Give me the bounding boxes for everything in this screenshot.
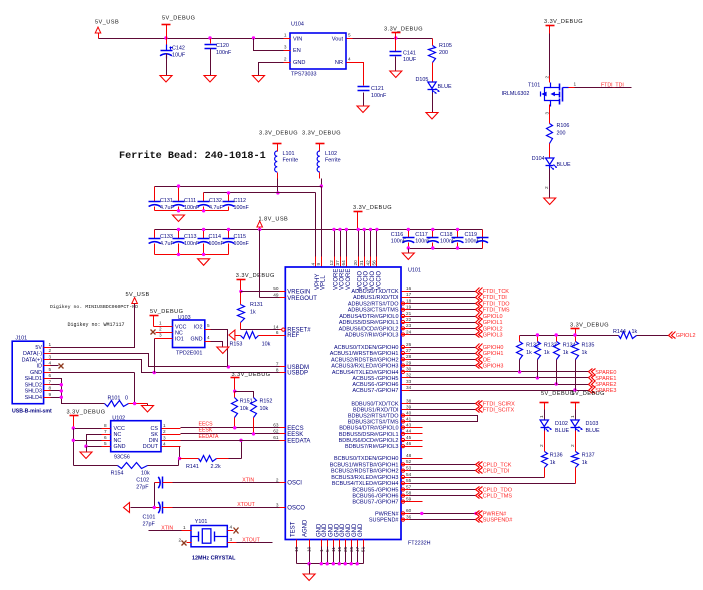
svg-text:GPIOL2: GPIOL2 xyxy=(483,326,503,332)
ground cap row1 xyxy=(173,215,185,222)
svg-text:EESK: EESK xyxy=(199,427,213,433)
svg-text:U101: U101 xyxy=(408,268,421,274)
svg-text:R106: R106 xyxy=(557,123,570,129)
power flag 5V_DEBUG D103 xyxy=(571,391,605,410)
wire U102 NC7 GND xyxy=(87,435,102,447)
wire 1.8V rail xyxy=(155,229,483,231)
port CPLD_TDO xyxy=(476,487,513,494)
svg-text:4.7uF: 4.7uF xyxy=(209,205,223,211)
wire BDBUS2 BDBUS3 loop xyxy=(402,416,478,422)
wire pin 21 to port xyxy=(402,316,476,318)
svg-text:ADBUS2/RTS#/TDO: ADBUS2/RTS#/TDO xyxy=(348,302,399,308)
svg-text:2: 2 xyxy=(544,76,549,79)
op-amp U104 regulator TPS73033 xyxy=(290,22,346,78)
junction gnd bus xyxy=(356,562,359,565)
junction VCORE 37 xyxy=(338,228,341,231)
wire 3.3V to T101 xyxy=(549,34,551,83)
junction 1.8V arrow xyxy=(258,228,261,231)
svg-text:1: 1 xyxy=(570,415,575,418)
svg-text:2: 2 xyxy=(159,327,162,332)
port GPIOL3 xyxy=(476,332,503,339)
wire SHLD chain xyxy=(51,379,105,404)
junction spare SPARE3 xyxy=(573,388,576,391)
svg-text:5: 5 xyxy=(49,367,52,372)
svg-text:BLUE: BLUE xyxy=(555,428,569,434)
junction VCORE 64 xyxy=(345,228,348,231)
svg-text:ACBUS1/WRSTB#/GPIOH1: ACBUS1/WRSTB#/GPIOH1 xyxy=(330,351,399,357)
wire L102 drop xyxy=(320,173,322,187)
svg-text:1k: 1k xyxy=(632,329,638,335)
svg-text:7: 7 xyxy=(49,379,52,384)
LED D104 BLUE xyxy=(532,156,571,170)
capacitor C142 xyxy=(160,39,186,59)
svg-text:29: 29 xyxy=(406,360,412,365)
pin name VCORE xyxy=(339,269,345,290)
junction SHLD3 xyxy=(51,389,64,392)
pin 5 GND xyxy=(30,367,51,376)
pin 2 D102 xyxy=(539,444,544,447)
svg-text:1k: 1k xyxy=(582,460,588,466)
wire stub pin 48 xyxy=(402,458,423,460)
wire pin 38 to port xyxy=(402,403,476,405)
svg-text:18: 18 xyxy=(406,298,412,303)
svg-text:BLUE: BLUE xyxy=(557,162,571,168)
junction gnd bus xyxy=(350,562,353,565)
svg-text:PWREN#: PWREN# xyxy=(375,511,399,517)
pin 6 REF xyxy=(276,330,300,339)
svg-text:CPLD_TDI: CPLD_TDI xyxy=(483,469,510,475)
pin 2 Y101 xyxy=(179,538,192,546)
junction C115 top xyxy=(227,228,230,231)
op-amp U101 FT2232H box xyxy=(285,267,430,547)
junction gnd bus xyxy=(326,562,329,565)
junction SHLD4 xyxy=(51,396,64,399)
svg-text:1k: 1k xyxy=(550,460,556,466)
svg-text:100nF: 100nF xyxy=(216,50,232,56)
pin 46 BDBUS7/RI#/GPIOL3 xyxy=(345,441,412,450)
svg-text:GPIOH1: GPIOH1 xyxy=(483,351,504,357)
svg-text:BDBUS7/RI#/GPIOL3: BDBUS7/RI#/GPIOL3 xyxy=(345,444,399,450)
svg-text:NR: NR xyxy=(335,60,343,66)
svg-text:45: 45 xyxy=(406,435,412,440)
svg-text:BCBUS1/WRSTB#/GPIOH1: BCBUS1/WRSTB#/GPIOH1 xyxy=(330,462,399,468)
resistor R154 xyxy=(74,463,179,477)
svg-text:41: 41 xyxy=(406,416,412,421)
wire D103 top xyxy=(570,410,576,420)
pin 16 ADBUS0/TXD/TCK xyxy=(351,286,411,295)
wire pin 28 to port xyxy=(402,359,476,361)
svg-text:BLUE: BLUE xyxy=(586,428,600,434)
svg-text:2: 2 xyxy=(276,477,279,482)
svg-text:C133: C133 xyxy=(160,234,173,240)
svg-text:OSCO: OSCO xyxy=(287,506,305,512)
svg-text:BDBUS4/DTR#/GPIOL0: BDBUS4/DTR#/GPIOL0 xyxy=(339,426,398,432)
svg-text:XTOUT: XTOUT xyxy=(242,538,260,544)
junction row2 bottom xyxy=(177,253,180,256)
svg-text:XTOUT: XTOUT xyxy=(237,502,255,508)
wire PWREN# xyxy=(402,513,476,515)
svg-text:R154: R154 xyxy=(111,471,124,477)
svg-text:27pF: 27pF xyxy=(136,485,149,491)
svg-text:ACBUS7-/GPIOH7: ACBUS7-/GPIOH7 xyxy=(352,388,398,394)
svg-text:GPIOL3: GPIOL3 xyxy=(483,333,503,339)
wire pin 27 to port xyxy=(402,353,476,355)
op-amp U103 TPD2E001 xyxy=(173,315,205,357)
svg-text:1.8V_USB: 1.8V_USB xyxy=(259,216,289,222)
wire R152 to EESK xyxy=(253,418,255,434)
svg-text:3.3V_DEBUG: 3.3V_DEBUG xyxy=(232,372,271,378)
svg-text:SPARE1: SPARE1 xyxy=(595,376,616,382)
wire 5V rail top xyxy=(99,38,284,40)
junction gnd bus xyxy=(320,562,323,565)
svg-text:C115: C115 xyxy=(234,234,247,240)
svg-text:D105: D105 xyxy=(416,77,429,83)
port SPARE1 xyxy=(589,375,617,382)
junction C116 bottom xyxy=(407,246,410,249)
note digikey 2 xyxy=(68,322,125,328)
junction row1 mid xyxy=(202,209,205,212)
junction gnd bus xyxy=(338,562,341,565)
pin 3 DATA(+) xyxy=(22,354,52,363)
svg-text:14: 14 xyxy=(273,324,279,329)
resistor R144 xyxy=(613,329,669,339)
wire cap gnd column xyxy=(131,483,155,508)
wire R141 to EEDATA xyxy=(241,441,243,459)
pin 4 ID xyxy=(37,361,52,370)
pin 3 T101 xyxy=(544,112,549,115)
svg-text:GND: GND xyxy=(191,336,203,342)
svg-text:CPLD_TCK: CPLD_TCK xyxy=(483,462,512,468)
svg-text:1: 1 xyxy=(163,423,166,428)
wire T101 to R106 xyxy=(549,105,551,124)
wire row2 bottom rail xyxy=(155,244,229,255)
junction VCORE 12 xyxy=(332,228,335,231)
svg-text:TPD2E001: TPD2E001 xyxy=(176,351,202,357)
wire XTOUT to OSCO xyxy=(173,502,280,508)
port CPLD_TCK xyxy=(476,462,512,469)
ground C141 xyxy=(390,57,402,78)
junction C114 top xyxy=(202,228,205,231)
pin 57 BCBUS5-/GPIOH5 xyxy=(352,484,411,493)
svg-text:BCBUS5-/GPIOH5: BCBUS5-/GPIOH5 xyxy=(352,488,398,494)
svg-text:VCORE: VCORE xyxy=(339,269,345,290)
pin 4 U103 GND xyxy=(205,335,211,342)
svg-text:1: 1 xyxy=(159,321,162,326)
svg-text:C114: C114 xyxy=(209,234,222,240)
junction USBDP ESD xyxy=(153,371,156,374)
capacitor C118 xyxy=(440,230,464,249)
svg-text:8: 8 xyxy=(49,386,52,391)
wire stub pin 46 xyxy=(402,446,423,448)
svg-text:USBDP: USBDP xyxy=(287,371,308,377)
wire pin 26 to port xyxy=(402,347,476,349)
pin 4 VPHY xyxy=(311,257,316,268)
pin 2 U102 right xyxy=(162,429,181,435)
svg-text:C141: C141 xyxy=(403,51,416,57)
port GPIOH0 xyxy=(476,344,504,352)
junction spare SPARE2 xyxy=(555,382,558,385)
note digikey 1 xyxy=(50,304,138,310)
svg-text:27pF: 27pF xyxy=(143,522,156,528)
junction C117 bottom xyxy=(431,246,434,249)
svg-text:EECS: EECS xyxy=(287,426,303,432)
svg-text:4: 4 xyxy=(207,335,210,340)
svg-text:ADBUS7/RI#/GPIOL3: ADBUS7/RI#/GPIOL3 xyxy=(345,333,399,339)
svg-text:C113: C113 xyxy=(184,234,197,240)
ground R153 left xyxy=(229,330,235,340)
svg-text:9: 9 xyxy=(49,392,52,397)
junction R134 top xyxy=(555,333,558,336)
svg-text:BCBUS3/RXLED#/GPIOH3: BCBUS3/RXLED#/GPIOH3 xyxy=(331,475,398,481)
pin 60 PWREN# xyxy=(375,508,412,517)
svg-text:32: 32 xyxy=(406,373,412,378)
junction R141 EEDATA xyxy=(239,439,242,442)
svg-text:36: 36 xyxy=(406,514,412,519)
svg-text:100nF: 100nF xyxy=(234,241,250,247)
pin 41 BDBUS3/CTS#/TMS xyxy=(348,416,412,425)
capacitor C113 xyxy=(173,230,200,248)
wire R106 to D104 xyxy=(549,144,551,158)
svg-text:49: 49 xyxy=(273,293,279,298)
port GPIOL1 xyxy=(476,319,503,327)
junction gnd bus xyxy=(332,562,335,565)
wire Vout to 3.3V rail xyxy=(353,38,433,40)
pin name VPHY xyxy=(315,274,321,290)
resistor R153 xyxy=(230,332,280,348)
svg-text:FT2232H: FT2232H xyxy=(408,541,431,547)
svg-text:D104: D104 xyxy=(532,156,545,162)
svg-text:22: 22 xyxy=(406,317,412,322)
port FTDI_TCK xyxy=(476,288,510,296)
svg-text:SHLD4: SHLD4 xyxy=(25,395,42,401)
junction cap gnd xyxy=(153,506,156,509)
wire IO1 to USBDP xyxy=(154,339,156,373)
wire pin 58 to port xyxy=(402,495,476,497)
svg-text:100nF: 100nF xyxy=(440,239,456,245)
pin 63 EECS xyxy=(273,423,303,432)
note ferrite bead xyxy=(119,150,266,162)
svg-text:2: 2 xyxy=(284,57,287,62)
svg-text:R152: R152 xyxy=(260,399,273,405)
pin 47 GND xyxy=(352,523,360,552)
svg-text:BCBUS2/RDSTB#/GPIOH2: BCBUS2/RDSTB#/GPIOH2 xyxy=(331,469,399,475)
svg-text:10k: 10k xyxy=(260,406,269,412)
svg-text:58: 58 xyxy=(406,490,412,495)
svg-text:R135: R135 xyxy=(582,343,595,349)
svg-text:L102: L102 xyxy=(325,151,337,157)
svg-text:VCCIO: VCCIO xyxy=(376,271,382,290)
svg-text:C118: C118 xyxy=(440,232,453,238)
pin 18 ADBUS2/RTS#/TDO xyxy=(348,298,412,307)
svg-text:C102: C102 xyxy=(136,478,149,484)
svg-text:60: 60 xyxy=(406,508,412,513)
svg-text:R105: R105 xyxy=(439,43,452,49)
pin 26 ACBUS0/TXDEN/GPIOH0 xyxy=(334,342,412,351)
svg-text:34: 34 xyxy=(406,385,412,390)
svg-text:30: 30 xyxy=(406,367,412,372)
wire VCORE col pin 64 xyxy=(341,230,346,268)
ground D105 xyxy=(426,93,438,120)
pin 55 BCBUS4/TXLED#/GPIOH4 xyxy=(332,478,412,487)
svg-text:R141: R141 xyxy=(186,464,199,470)
svg-text:3: 3 xyxy=(159,333,162,338)
svg-text:64: 64 xyxy=(341,260,346,266)
wire row1 bottom rail xyxy=(155,207,229,211)
power flag 5V_USB xyxy=(95,20,119,39)
ground U103 xyxy=(217,347,229,354)
svg-text:C111: C111 xyxy=(184,198,196,204)
wire IO2 to USBDM xyxy=(211,330,228,367)
ground U104 xyxy=(253,76,265,83)
junction spare SPARE1 xyxy=(536,376,539,379)
svg-text:3: 3 xyxy=(544,112,549,115)
pin 36 SUSPEND# xyxy=(369,514,412,523)
svg-text:ACBUS5-/GPIOH5: ACBUS5-/GPIOH5 xyxy=(352,376,398,382)
svg-text:6: 6 xyxy=(104,435,107,440)
power flag 5V_DEBUG top xyxy=(162,16,196,39)
capacitor C121 xyxy=(358,86,387,99)
pin 4 NR xyxy=(347,57,353,63)
svg-text:R153: R153 xyxy=(230,341,243,347)
wire R151 to EECS xyxy=(234,418,236,428)
capacitor C120 xyxy=(205,39,232,57)
port FTDI_SCITX xyxy=(476,407,515,414)
svg-text:GND: GND xyxy=(293,60,305,66)
svg-text:10k: 10k xyxy=(240,406,249,412)
port FTDI_TMS xyxy=(476,307,510,314)
pin 1 GND xyxy=(316,523,324,552)
capacitor C115 xyxy=(223,230,250,248)
power flag 5V_USB J101 xyxy=(126,292,150,304)
port CPLD_TMS xyxy=(476,493,513,500)
junction R133 top xyxy=(536,333,539,336)
resistor R134 xyxy=(554,336,576,385)
LED D102 BLUE xyxy=(540,420,569,434)
pin 2 D104 xyxy=(544,186,549,189)
wire VCCIO col pin 31 xyxy=(359,230,365,268)
junction C118 bottom xyxy=(456,246,459,249)
svg-text:33: 33 xyxy=(406,379,412,384)
svg-text:IRLML6302: IRLML6302 xyxy=(502,91,530,97)
pin 5 U103 IO2 xyxy=(205,323,211,330)
wire XTIN stub crystal xyxy=(149,525,182,531)
junction R135 top xyxy=(573,333,576,336)
svg-text:28: 28 xyxy=(406,354,412,359)
op-amp U102 93C56 xyxy=(111,416,161,461)
pin 58 BCBUS6-/GPIOH6 xyxy=(352,490,411,499)
svg-text:C142: C142 xyxy=(172,46,185,52)
wire pin 16 to port xyxy=(402,291,476,293)
svg-text:D102: D102 xyxy=(555,421,568,427)
capacitor C119 xyxy=(465,230,489,249)
junction U102 VCC xyxy=(72,426,75,465)
svg-text:R131: R131 xyxy=(250,302,263,308)
svg-text:R144: R144 xyxy=(613,329,626,335)
svg-text:GND: GND xyxy=(30,370,42,376)
svg-text:U103: U103 xyxy=(178,315,191,321)
pin 38 BDBUS0/TXD/TCK xyxy=(351,398,411,407)
svg-text:L101: L101 xyxy=(283,151,295,157)
resistor R152 xyxy=(251,398,273,418)
wire FTDI_TDI xyxy=(575,83,632,89)
svg-text:3: 3 xyxy=(284,45,287,50)
power flag 5V_DEBUG D102 xyxy=(540,391,575,410)
svg-text:8: 8 xyxy=(276,367,279,372)
capacitor C101 xyxy=(143,502,173,528)
pin 1 U102 right xyxy=(162,423,181,429)
pin 1 Y101 xyxy=(182,525,192,531)
pin 3 OSCO xyxy=(276,502,305,511)
svg-text:5V_DEBUG: 5V_DEBUG xyxy=(541,391,574,397)
wire pin 32 spare xyxy=(402,377,589,379)
svg-text:40: 40 xyxy=(406,410,412,415)
wire pin 52 to port xyxy=(402,464,476,466)
svg-text:FTDI_TDO: FTDI_TDO xyxy=(483,302,511,308)
svg-text:BLUE: BLUE xyxy=(438,84,452,90)
svg-text:9: 9 xyxy=(316,263,321,266)
ground cap row2 xyxy=(198,259,210,266)
port FTDI_SCIRX xyxy=(476,401,516,408)
wire row2 left column xyxy=(154,230,156,239)
svg-text:52: 52 xyxy=(406,459,412,464)
svg-text:93C56: 93C56 xyxy=(114,455,130,461)
port GPIOH1 xyxy=(476,350,504,358)
port PWREN# xyxy=(476,511,508,518)
wire VPHY net xyxy=(204,193,316,257)
pin 22 ADBUS5/DSR#/GPIOL1 xyxy=(339,317,412,326)
wire DOUT drop xyxy=(179,447,180,466)
junction C113 top xyxy=(177,228,180,231)
svg-text:R136: R136 xyxy=(550,453,563,459)
junction C117 top xyxy=(431,228,434,231)
svg-text:1k: 1k xyxy=(563,350,569,356)
svg-text:REF: REF xyxy=(287,333,299,339)
pin 4 U102 right xyxy=(162,441,181,446)
pin 19 ADBUS3/CTS#/TMS xyxy=(348,305,412,314)
svg-text:ACBUS2/RDSTB#/GPIOH2: ACBUS2/RDSTB#/GPIOH2 xyxy=(331,357,399,363)
resistor R132 xyxy=(517,336,539,372)
port SPARE0 xyxy=(589,369,617,376)
power flag 3.3V_DEBUG L101 xyxy=(259,131,298,151)
capacitor C111 xyxy=(173,187,200,212)
svg-text:1: 1 xyxy=(183,525,186,530)
svg-text:VCCIO: VCCIO xyxy=(370,271,376,290)
port OE xyxy=(476,357,491,364)
power flag 3.3V_DEBUG vregin xyxy=(236,273,275,292)
svg-text:42: 42 xyxy=(365,260,370,266)
junction DOUT R141 xyxy=(178,457,181,460)
capacitor C102 xyxy=(136,477,172,491)
pin 23 ADBUS6/DCD#/GPIOL2 xyxy=(339,323,412,332)
svg-text:63: 63 xyxy=(273,423,279,428)
svg-text:16: 16 xyxy=(406,286,412,291)
svg-text:GND: GND xyxy=(358,523,364,537)
svg-text:5V_DEBUG: 5V_DEBUG xyxy=(572,391,605,397)
wire EESK xyxy=(181,427,280,433)
svg-text:8: 8 xyxy=(104,423,107,428)
junction C111 top xyxy=(177,184,180,187)
junction row1 gnd xyxy=(177,209,180,212)
resistor R136 xyxy=(542,431,563,468)
svg-text:1k: 1k xyxy=(526,350,532,356)
pin 2 OSCI xyxy=(276,477,302,486)
svg-text:1k: 1k xyxy=(544,350,550,356)
wire pin 55 to R137 xyxy=(402,468,576,484)
svg-text:5: 5 xyxy=(207,323,210,328)
pin 6 U102 xyxy=(102,435,111,441)
svg-text:2.2k: 2.2k xyxy=(211,464,221,470)
pin 33 ACBUS6-/GPIOH6 xyxy=(352,379,411,388)
